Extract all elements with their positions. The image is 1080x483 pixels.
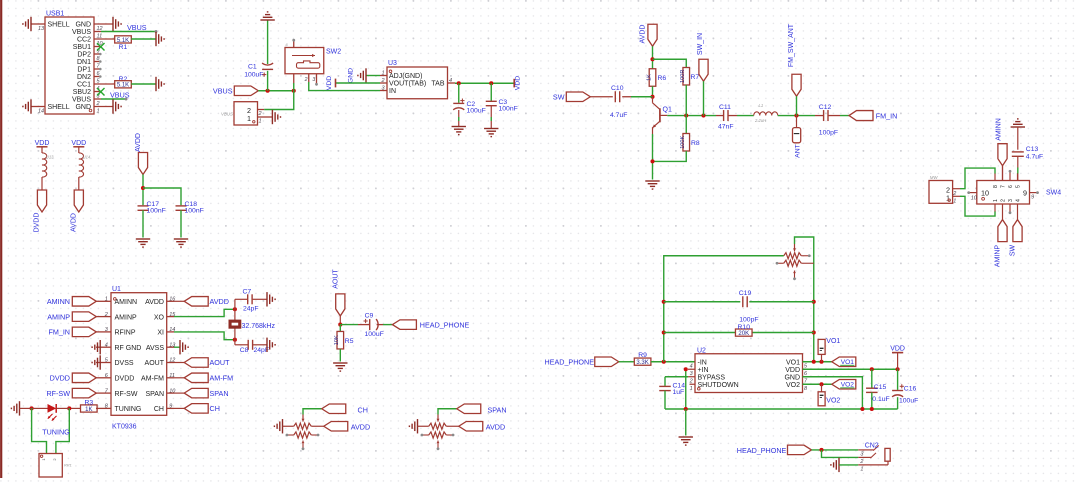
junction left C19 <box>662 300 666 304</box>
wire R8 to emitter node <box>653 151 687 161</box>
SW4 pin9 lead <box>1030 192 1037 194</box>
svg-text:U14: U14 <box>83 155 91 160</box>
U2 pin1 stub <box>690 383 696 385</box>
svg-text:5.1K: 5.1K <box>117 38 129 44</box>
svg-text:VDD: VDD <box>326 76 333 90</box>
port VO2 <box>832 380 856 390</box>
wire C3 to ground <box>490 106 492 117</box>
resistor R2 5.1K <box>94 83 115 85</box>
SW2 pin to VBUS junction <box>293 74 295 83</box>
svg-text:R8: R8 <box>691 140 700 147</box>
SPAN pot gang2 leads <box>423 434 429 436</box>
ground at R2 <box>156 77 164 91</box>
SW2 slide glyph <box>297 61 320 68</box>
capacitor C1 100uF <box>267 71 269 91</box>
svg-text:1: 1 <box>247 114 251 123</box>
svg-text:AMINP: AMINP <box>115 314 138 321</box>
port VO1 <box>832 357 856 367</box>
junction node A (Q1 collector) <box>650 95 654 99</box>
port AVDD at U1 pin16 <box>174 300 184 302</box>
svg-text:C8: C8 <box>240 347 249 354</box>
resistor R10 20K <box>735 329 752 336</box>
wire VO1 to feedback rail <box>803 361 832 363</box>
svg-text:VDD: VDD <box>890 346 905 353</box>
svg-text:SBU2: SBU2 <box>73 89 91 96</box>
ground below R5 <box>333 363 347 371</box>
svg-text:ANT: ANT <box>794 144 801 158</box>
svg-text:100K: 100K <box>680 135 686 148</box>
wire C19 row <box>664 301 814 303</box>
U1 pin 2 AMINP <box>96 316 111 318</box>
wire R2 to ground <box>131 83 156 85</box>
port SW (SW4) <box>1013 220 1022 242</box>
svg-text:AVSS: AVSS <box>146 345 164 352</box>
svg-text:RF-SW: RF-SW <box>46 389 70 398</box>
capacitor C19 100pF <box>740 296 749 308</box>
SW4 pin1 lead <box>994 204 996 212</box>
junction right R10 <box>812 330 816 334</box>
capacitor C11 47nF <box>723 110 725 121</box>
wire BYPASS to C14 <box>688 376 695 378</box>
wire AOUT to junction <box>339 316 341 325</box>
svg-text:TUNING: TUNING <box>115 406 142 413</box>
svg-text:R7: R7 <box>691 74 700 81</box>
port AOUT at U1 pin12 <box>174 362 184 364</box>
wire R5 to ground <box>339 349 341 362</box>
svg-text:CN2: CN2 <box>865 442 879 449</box>
wire U3 TAB to VDD rail <box>455 82 514 84</box>
svg-text:1: 1 <box>860 467 863 473</box>
ground above C13 <box>1011 119 1025 127</box>
svg-text:SHELL: SHELL <box>48 104 70 111</box>
svg-text:GND: GND <box>348 68 355 83</box>
svg-text:SHELL: SHELL <box>48 22 70 29</box>
svg-text:C15: C15 <box>874 384 887 391</box>
wire MW pin1 to SW4 pin1 <box>953 195 960 197</box>
U1 pin 11 AM-FM <box>167 377 174 379</box>
svg-text:5.1K: 5.1K <box>117 83 129 89</box>
U1 pin 14 XI <box>167 331 174 333</box>
svg-text:GND: GND <box>75 104 91 111</box>
wire R6 to node A <box>652 86 654 97</box>
U1 pin 15 XO <box>167 316 174 318</box>
svg-text:4.7uF: 4.7uF <box>1026 154 1043 161</box>
U1 pin 8 TUNING <box>96 407 111 409</box>
svg-text:4: 4 <box>1016 199 1022 202</box>
svg-text:CC2: CC2 <box>77 37 91 44</box>
USB1 pin 11 VBUS wire <box>94 31 101 33</box>
svg-text:SW: SW <box>553 93 565 102</box>
svg-text:R9: R9 <box>638 352 647 359</box>
wire VDD row <box>803 368 898 370</box>
junction XO node <box>233 307 237 311</box>
ground at C7 <box>267 292 275 306</box>
potentiometer RP2 (feedback) <box>784 253 802 259</box>
svg-text:R3: R3 <box>84 399 93 406</box>
svg-text:U13: U13 <box>46 155 54 160</box>
svg-text:1uF: 1uF <box>673 389 685 396</box>
ferrite bead U13 <box>42 153 47 177</box>
wire bead to AVDD port <box>78 177 80 191</box>
ground at CH pot <box>274 419 282 433</box>
no-connect X on SBU2 pin3 <box>94 91 101 93</box>
svg-text:TAB: TAB <box>431 81 444 88</box>
svg-text:1: 1 <box>690 386 693 392</box>
wire C8 to ground <box>253 344 267 346</box>
U1 pin 13 AVSS <box>167 346 174 348</box>
svg-text:9: 9 <box>169 404 172 410</box>
junction -IN node <box>662 360 666 364</box>
svg-text:1: 1 <box>259 118 262 124</box>
ground below C18 <box>174 239 188 247</box>
svg-text:VBUS: VBUS <box>127 23 147 32</box>
SW2 pin 2 wire to U3 IN <box>308 74 310 82</box>
svg-text:FM_SW_ANT: FM_SW_ANT <box>788 23 795 67</box>
junction at C1 <box>266 89 270 93</box>
svg-text:R1: R1 <box>119 44 128 51</box>
port DVDD <box>37 190 46 212</box>
SW4 pin3 lead nc <box>1009 204 1011 212</box>
SW4 pin5 lead (C13) <box>1017 173 1019 181</box>
svg-text:RF GND: RF GND <box>115 345 142 352</box>
svg-text:100nF: 100nF <box>499 106 518 113</box>
capacitor C7 24pF <box>234 299 236 309</box>
inductor L1 2.2uH <box>754 112 778 116</box>
wire C11 to L1 <box>728 115 737 117</box>
svg-text:VDD: VDD <box>71 140 86 147</box>
svg-text:KT0936: KT0936 <box>112 424 137 431</box>
U3 pin3 stub <box>380 90 387 92</box>
SW2 pin 3 (nc) <box>316 74 318 84</box>
U1 pin 5 DVSS <box>96 362 111 364</box>
svg-text:RF-SW: RF-SW <box>115 391 138 398</box>
junction rail at +IN drop <box>684 407 688 411</box>
svg-text:VO2: VO2 <box>786 382 800 389</box>
wire SW_IN to base node <box>703 81 705 115</box>
svg-text:100pF: 100pF <box>739 316 758 323</box>
wire LED cathode to trimpot <box>56 408 69 453</box>
sheet border <box>0 0 2 478</box>
ground at C8 <box>267 338 275 352</box>
RP2 gang leads <box>801 255 808 257</box>
SW4 pin10 lead <box>970 192 977 194</box>
svg-text:AOUT: AOUT <box>210 358 231 367</box>
svg-text:2: 2 <box>381 78 385 84</box>
svg-text:GND: GND <box>75 22 91 29</box>
svg-text:DP1: DP1 <box>77 67 91 74</box>
capacitor C16 100uF <box>897 369 899 390</box>
svg-text:1: 1 <box>105 297 108 303</box>
USB1 pin 12 GND wire <box>94 23 113 25</box>
svg-text:13: 13 <box>38 26 45 32</box>
svg-text:4: 4 <box>449 78 452 84</box>
svg-text:10K: 10K <box>334 335 340 345</box>
svg-text:14: 14 <box>38 109 44 115</box>
capacitor C12 100pF <box>823 110 825 121</box>
svg-text:Q1: Q1 <box>663 106 672 113</box>
svg-text:10: 10 <box>971 195 978 201</box>
junction headphone node <box>819 448 823 452</box>
svg-text:BYPASS: BYPASS <box>698 374 726 381</box>
ground at U3 ADJ <box>358 68 366 82</box>
svg-text:3.3K: 3.3K <box>636 360 648 366</box>
wire to C9 <box>340 324 358 326</box>
wire SW to C10 <box>590 96 613 98</box>
USB connector USB1 <box>45 17 94 114</box>
wire L1 to antenna node <box>778 115 815 117</box>
wire AMINN to SW4 pin7 <box>1002 166 1004 181</box>
svg-text:6: 6 <box>1008 185 1014 188</box>
U1 pin 10 SPAN <box>167 392 174 394</box>
wire ground to jack pin1 <box>839 464 858 466</box>
wire SPAN pot to AVDD port <box>446 425 459 427</box>
svg-text:R6: R6 <box>658 75 667 82</box>
port AM-FM at U1 pin11 <box>174 377 184 379</box>
svg-text:CH: CH <box>210 404 220 413</box>
svg-text:VO1: VO1 <box>786 359 800 366</box>
svg-text:C16: C16 <box>904 385 917 392</box>
svg-text:DN2: DN2 <box>77 74 91 81</box>
svg-text:SW: SW <box>1010 244 1017 256</box>
svg-text:-IN: -IN <box>698 359 707 366</box>
ground below U2 <box>679 437 693 445</box>
ground at SPAN pot <box>409 419 417 433</box>
svg-text:MW: MW <box>930 175 939 180</box>
wire connector pin1 to ground <box>258 116 273 118</box>
wire R1 to ground <box>131 38 156 40</box>
port SPAN <box>457 404 481 414</box>
wire CH wiper to port <box>303 409 322 415</box>
CH pot gang2 leads <box>288 434 294 436</box>
ground at jack sleeve <box>831 458 839 472</box>
junction C15 top <box>870 367 874 371</box>
feedback rail left <box>664 256 784 362</box>
SW4 pin4 lead (SW) <box>1017 204 1019 220</box>
resistor R9 3.3K <box>634 358 651 365</box>
port AMINP (SW4) <box>998 220 1007 242</box>
svg-text:DVDD: DVDD <box>50 374 70 383</box>
svg-text:1K: 1K <box>646 74 652 81</box>
junction VDD port <box>896 367 900 371</box>
wire CH pot to AVDD port <box>311 425 324 427</box>
wire C10 to node A <box>622 96 631 98</box>
U1 pin 16 AVDD <box>167 300 174 302</box>
junction LED anode <box>30 406 34 410</box>
ground below C2 <box>452 127 466 135</box>
wire AVDD to C17/C18 <box>142 175 144 206</box>
svg-text:RFINP: RFINP <box>115 330 136 337</box>
SW2 top pin (nc) <box>293 41 295 48</box>
SW4 pin6 lead nc <box>1009 172 1011 181</box>
svg-text:SPAN: SPAN <box>145 391 164 398</box>
svg-text:IN: IN <box>389 88 396 95</box>
svg-text:SPAN: SPAN <box>210 389 229 398</box>
jack CN2 pin2 lead <box>858 456 871 458</box>
ground at connector pin1 <box>272 110 280 124</box>
power port VDD (regulator output) <box>513 79 515 88</box>
wire to jack ring <box>822 450 859 458</box>
ferrite bead U14 <box>79 153 84 177</box>
U1 pin 6 DVDD <box>96 377 111 379</box>
port AMINP at U1 pin2 <box>72 312 96 322</box>
junction antenna node <box>794 114 798 118</box>
capacitor C10 4.7uF <box>614 91 616 102</box>
svg-text:2: 2 <box>689 378 693 384</box>
svg-text:9: 9 <box>1031 194 1034 200</box>
svg-text:SW2: SW2 <box>326 49 341 56</box>
junction at SW2 feed <box>292 89 296 93</box>
jack CN2 body <box>885 448 890 461</box>
svg-text:AMINP: AMINP <box>995 245 1002 268</box>
ground at USB1 pin13 <box>23 17 31 31</box>
svg-text:AVDD: AVDD <box>70 213 77 232</box>
wire GND row <box>803 377 863 409</box>
svg-text:C19: C19 <box>739 290 752 297</box>
svg-text:AVDD: AVDD <box>639 25 646 44</box>
test point VO2 <box>818 392 825 406</box>
port FM_IN at U1 pin3 <box>72 327 96 337</box>
port AVDD <box>74 190 83 212</box>
svg-text:VO1: VO1 <box>826 338 840 345</box>
svg-text:FM_IN: FM_IN <box>876 112 898 121</box>
port AVDD (SPAN pot) <box>459 422 483 432</box>
svg-text:AMINN: AMINN <box>996 118 1003 141</box>
svg-text:100uF: 100uF <box>244 72 263 79</box>
svg-text:L1: L1 <box>759 103 764 108</box>
wire C14 to ground rail <box>664 391 666 409</box>
svg-text:AVDD: AVDD <box>486 422 505 431</box>
potentiometer CH element <box>294 423 312 429</box>
port AMINN at U1 pin1 <box>72 297 96 307</box>
wire R7 to base node <box>685 85 687 116</box>
svg-text:FM_IN: FM_IN <box>48 328 70 337</box>
SW4 pin2 lead (AMINP) <box>1002 204 1004 220</box>
resistor R6 1K <box>649 69 656 87</box>
svg-text:HEAD_PHONE: HEAD_PHONE <box>420 320 470 329</box>
ground at USB1 pin14 <box>23 99 31 113</box>
test point VO1 <box>818 339 825 354</box>
svg-text:8: 8 <box>993 185 999 188</box>
svg-text:47nF: 47nF <box>718 124 734 131</box>
U3 pin2 stub <box>380 82 387 84</box>
svg-text:1: 1 <box>953 198 956 204</box>
svg-text:AVDD: AVDD <box>351 422 370 431</box>
svg-text:GND: GND <box>784 374 800 381</box>
svg-text:AOUT: AOUT <box>145 360 165 367</box>
wire LED anode to trimpot <box>32 408 47 453</box>
svg-text:4: 4 <box>690 363 693 369</box>
resistor R1 5.1K <box>94 38 115 40</box>
wire Q1 emitter down <box>652 134 654 180</box>
svg-text:4.7uF: 4.7uF <box>610 112 627 119</box>
U1 pin 7 RF-SW <box>96 392 111 394</box>
IC U1 KT0936 <box>111 293 167 416</box>
svg-text:AMINN: AMINN <box>115 299 138 306</box>
svg-text:SBU1: SBU1 <box>73 44 91 51</box>
wire FM_SW_ANT to antenna node <box>796 96 798 115</box>
svg-text:AM-FM: AM-FM <box>141 376 164 383</box>
wire bead to DVDD port <box>41 177 43 191</box>
svg-text:4: 4 <box>105 342 108 348</box>
capacitor C15 0.1uF <box>871 369 873 388</box>
U1 pin 12 AOUT <box>167 362 174 364</box>
svg-text:SW4: SW4 <box>1046 190 1061 197</box>
port DVDD at U1 pin6 <box>72 373 96 383</box>
LED D1 <box>48 404 57 413</box>
wire SPAN wiper to port <box>438 409 457 415</box>
svg-text:2: 2 <box>1001 199 1007 202</box>
wire XO to crystal <box>174 309 235 316</box>
svg-text:VBUS: VBUS <box>72 29 91 36</box>
USB1 pin 14 SHELL <box>31 106 45 108</box>
switch SW2 <box>285 48 324 74</box>
IC U2 <box>695 354 803 393</box>
SW4 pin8 lead <box>994 173 996 181</box>
port RF-SW at U1 pin7 <box>72 388 96 398</box>
svg-text:1: 1 <box>993 199 999 202</box>
junction VO1 testpoint <box>819 360 823 364</box>
port HEAD_PHONE (radio out) <box>392 320 416 330</box>
wire VBUS rail <box>258 90 293 92</box>
wire U3 ADJ to GND <box>366 75 380 77</box>
wire ground to C13 <box>1017 127 1019 150</box>
wire MW pin2 to SW4 pin8 <box>953 188 960 190</box>
svg-text:VBUS: VBUS <box>110 91 130 100</box>
svg-text:CH: CH <box>358 405 368 414</box>
svg-text:R5: R5 <box>345 338 354 345</box>
wire VO2 row <box>803 383 832 385</box>
switch SW4 <box>977 181 1030 205</box>
USB1 pin 1 GND wire <box>94 106 113 108</box>
capacitor C2 100uF <box>458 83 460 103</box>
wire C2 to ground <box>458 110 460 117</box>
svg-text:VBUS: VBUS <box>213 87 233 96</box>
junction base node <box>684 114 688 118</box>
port CH <box>322 404 346 414</box>
svg-text:VO2: VO2 <box>826 397 840 404</box>
wire R9 to -IN <box>651 361 695 363</box>
RP2 wiper wire to output rail <box>795 237 814 362</box>
U1 pin 3 RFINP <box>96 331 111 333</box>
svg-text:AVDD: AVDD <box>145 299 164 306</box>
svg-text:+IN: +IN <box>698 367 709 374</box>
wire to R7 top <box>653 59 687 67</box>
svg-text:2: 2 <box>104 312 108 318</box>
ground below C17 <box>136 239 150 247</box>
svg-text:VOUT(TAB): VOUT(TAB) <box>389 81 426 88</box>
USB1 pin 13 SHELL <box>31 23 45 25</box>
svg-text:CC1: CC1 <box>77 82 91 89</box>
svg-text:C11: C11 <box>719 104 731 111</box>
U3 pin4 stub <box>448 82 456 84</box>
junction at C3 <box>489 81 493 85</box>
SW2 arrow glyph <box>292 55 315 57</box>
USB1 pin 5 DN2 stub <box>94 76 100 78</box>
wire C13 to SW4 pin5 <box>1017 156 1019 167</box>
wire C16 to rail <box>897 397 899 409</box>
svg-text:AVDD: AVDD <box>210 297 229 306</box>
svg-text:C13: C13 <box>1026 146 1039 153</box>
svg-text:32.768kHz: 32.768kHz <box>242 323 276 330</box>
jack CN2 pin3 lead <box>858 449 874 451</box>
svg-text:1: 1 <box>97 109 100 115</box>
junction left R10 <box>662 330 666 334</box>
svg-text:VBUS: VBUS <box>72 97 91 104</box>
U1 pin 4 RF GND <box>96 346 111 348</box>
junction XI node <box>233 338 237 342</box>
wire C15 to rail <box>871 392 873 409</box>
svg-text:2.2uH: 2.2uH <box>754 118 767 123</box>
